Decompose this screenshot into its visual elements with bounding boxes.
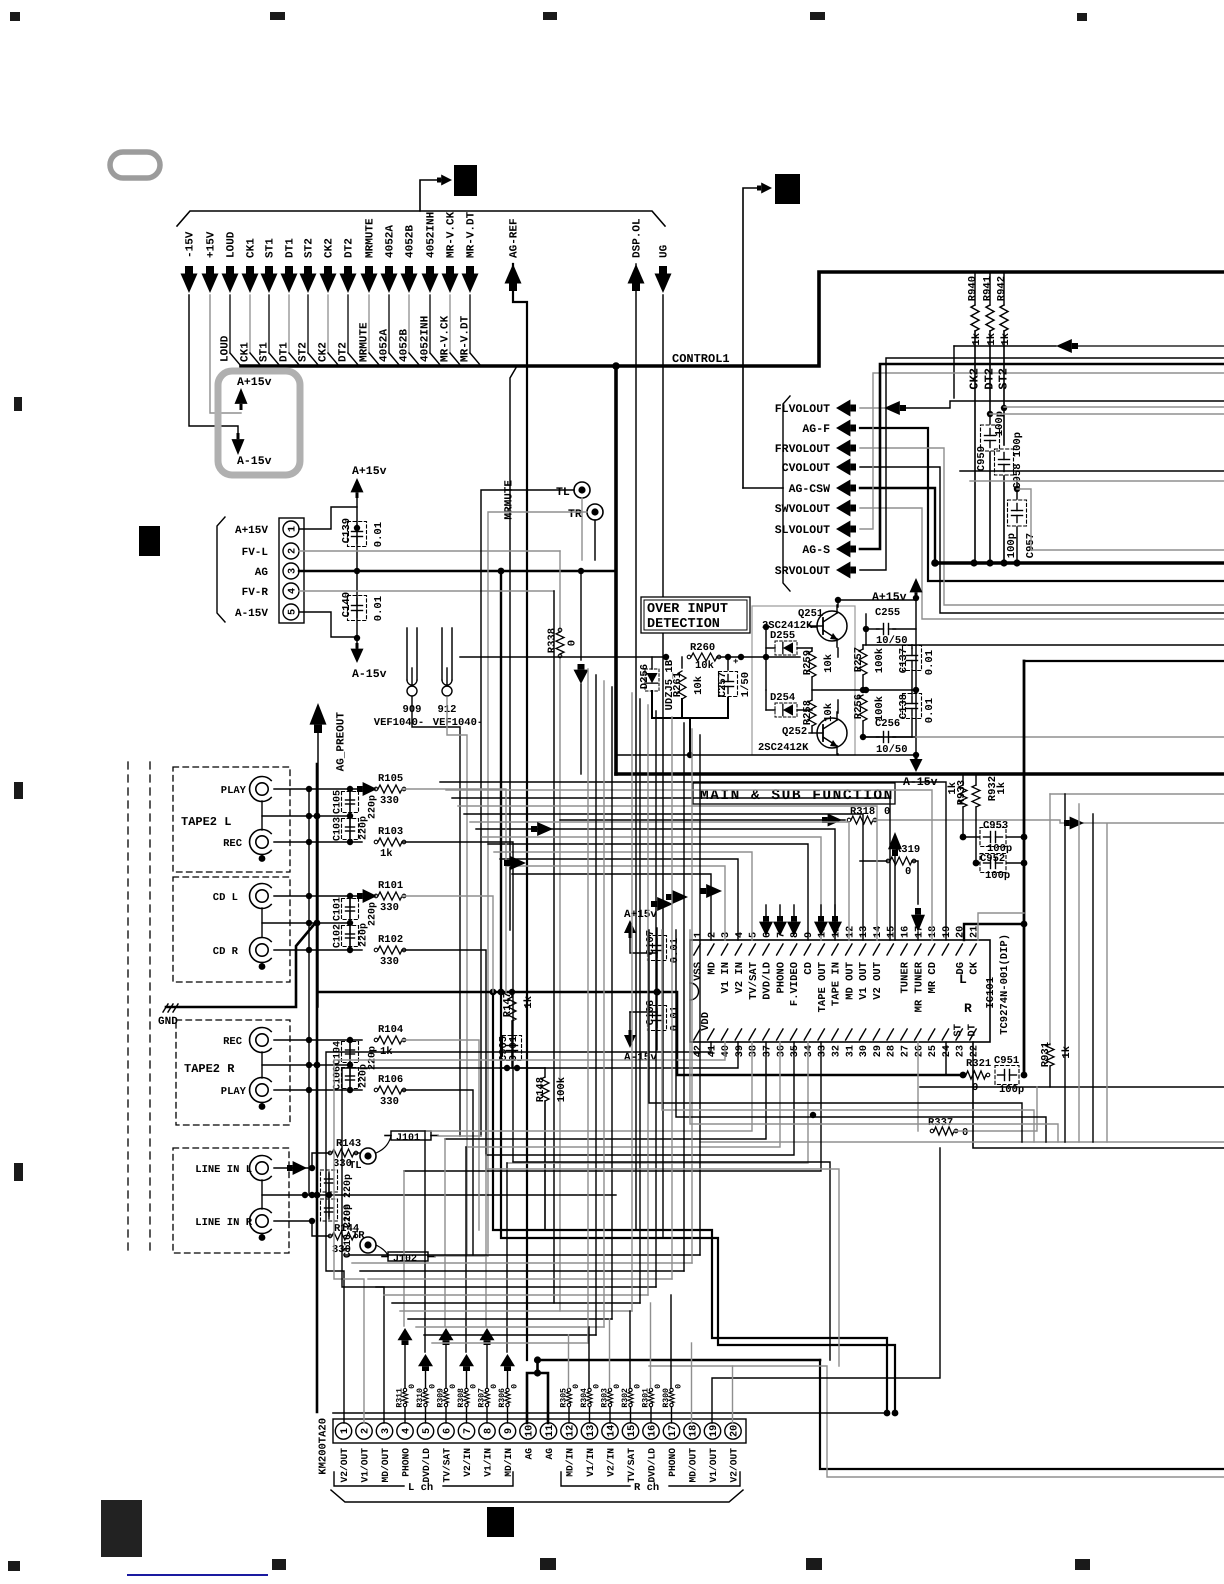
- MRMUTE tap from bus: [510, 366, 517, 930]
- resistor R303 0: [608, 1388, 611, 1391]
- svg-text:17: 17: [668, 1425, 679, 1437]
- IC101 pin 8: [790, 944, 796, 955]
- svg-text:330: 330: [380, 795, 399, 807]
- OVER INPUT DETECTION label box: [641, 597, 750, 633]
- wire to IC pin 19: [440, 782, 946, 940]
- svg-text:37: 37: [762, 1045, 773, 1057]
- svg-text:FV-R: FV-R: [242, 587, 269, 599]
- right arrows on bundle: [537, 822, 553, 836]
- svg-text:330: 330: [380, 956, 399, 968]
- L ch brace: [334, 1472, 404, 1486]
- capacitor C958 100p: [999, 459, 1010, 461]
- svg-text:VSS: VSS: [693, 962, 705, 981]
- jack signal wire: [402, 842, 513, 1162]
- pin22 DT drop: [973, 1042, 1224, 1148]
- svg-text:C952: C952: [980, 853, 1005, 865]
- gray pill logo: [110, 152, 160, 178]
- svg-text:Q252: Q252: [782, 726, 807, 738]
- wire IC pin to column: [445, 1042, 766, 1139]
- pin4 FV-R wire: [299, 590, 554, 592]
- svg-text:V2/IN: V2/IN: [462, 1448, 473, 1477]
- svg-text:0.01: 0.01: [373, 522, 385, 547]
- AG thick line right: [538, 1359, 821, 1362]
- svg-text:100k: 100k: [874, 696, 886, 721]
- svg-text:C140: C140: [341, 592, 353, 617]
- svg-text:1: 1: [693, 932, 704, 938]
- svg-text:1k: 1k: [1061, 1046, 1073, 1059]
- stair wire: [392, 1302, 640, 1304]
- resistor R257 100k: [859, 649, 867, 675]
- svg-text:C102: C102: [332, 924, 343, 948]
- IC101 body: [690, 940, 990, 1042]
- svg-text:3: 3: [381, 1428, 392, 1434]
- svg-text:26: 26: [914, 1045, 925, 1057]
- svg-text:R337: R337: [928, 1117, 953, 1129]
- resistor R102 330: [274, 949, 362, 951]
- svg-text:CK2: CK2: [318, 342, 330, 362]
- svg-text:10k: 10k: [695, 660, 714, 672]
- svg-text:29: 29: [873, 1045, 884, 1057]
- svg-text:23: 23: [956, 1045, 967, 1057]
- svg-text:R309: R309: [436, 1388, 445, 1408]
- connector pin 9 MD/IN: [499, 1423, 515, 1439]
- svg-text:12: 12: [565, 1425, 576, 1437]
- wire MR-V.CK to bus: [449, 295, 451, 353]
- svg-text:CK: CK: [969, 961, 981, 974]
- svg-text:R931: R931: [1040, 1042, 1052, 1067]
- svg-text:7: 7: [463, 1428, 474, 1434]
- LINE IN box: [173, 1148, 289, 1253]
- wire to IC pin 15: [452, 798, 890, 940]
- wire column to connector pin 17: [670, 1295, 672, 1388]
- svg-text:TAPE IN: TAPE IN: [831, 962, 843, 1006]
- connector pin 15 TV/SAT: [622, 1423, 638, 1439]
- SWVOLOUT wire: [860, 508, 1224, 619]
- 5-pin connector body: [279, 518, 304, 623]
- resistor R942 1k: [1003, 272, 1005, 305]
- svg-text:MR-V.CK: MR-V.CK: [446, 211, 458, 258]
- svg-text:0: 0: [567, 640, 579, 646]
- svg-text:0: 0: [510, 1384, 519, 1389]
- svg-text:9: 9: [804, 932, 815, 938]
- AG bus right thick: [935, 561, 1224, 564]
- svg-text:10k: 10k: [693, 676, 705, 695]
- -15V wire: [189, 295, 238, 433]
- svg-text:13: 13: [586, 1425, 597, 1437]
- stair wire: [360, 1270, 684, 1272]
- svg-text:100k: 100k: [874, 648, 886, 673]
- svg-text:R103: R103: [378, 826, 403, 838]
- wire column to connector pin 12: [568, 1335, 570, 1388]
- svg-text:100k: 100k: [556, 1077, 568, 1102]
- capacitor C138 0.01: [907, 703, 918, 705]
- wire IC pin to column: [404, 1042, 821, 1171]
- AG-REF wire down: [513, 264, 527, 1360]
- +15V wire: [210, 295, 241, 413]
- svg-text:6: 6: [442, 1428, 453, 1434]
- IC101 pin 28: [887, 1029, 893, 1040]
- svg-text:CONTROL1: CONTROL1: [672, 352, 730, 366]
- svg-text:15: 15: [887, 926, 898, 938]
- svg-text:4052INH: 4052INH: [426, 212, 438, 258]
- wire 909 to bundle: [412, 697, 460, 1136]
- wire 912 to bundle: [447, 697, 467, 1256]
- wire ST1 to bus: [268, 295, 270, 353]
- connector pin 1 V2/OUT: [335, 1423, 351, 1439]
- FRVOLOUT wire: [860, 448, 1224, 605]
- wire column to connector pin 6: [444, 1139, 446, 1326]
- Q collector rail: [838, 599, 916, 601]
- thick vertical right: [1023, 661, 1026, 1075]
- svg-text:R321: R321: [966, 1058, 991, 1070]
- edge lines right mid: [1004, 406, 1224, 408]
- capacitor C952 100p: [973, 860, 980, 867]
- svg-text:R306: R306: [498, 1388, 507, 1408]
- svg-text:100p: 100p: [985, 870, 1010, 882]
- svg-text:R148: R148: [535, 1077, 547, 1102]
- svg-text:35: 35: [790, 1045, 801, 1057]
- svg-text:220p: 220p: [367, 902, 378, 926]
- wire to IC pin 11: [476, 829, 835, 940]
- svg-text:1k: 1k: [996, 782, 1008, 795]
- svg-text:R307: R307: [477, 1388, 486, 1408]
- IC101 pin 6: [763, 944, 769, 955]
- svg-text:R303: R303: [600, 1388, 609, 1408]
- svg-text:LINE IN R: LINE IN R: [195, 1217, 252, 1229]
- svg-text:MR TUNER: MR TUNER: [913, 961, 925, 1012]
- second AG-ish line: [649, 1366, 1224, 1477]
- connector pin 17 PHONO: [663, 1423, 679, 1439]
- svg-text:4052B: 4052B: [405, 225, 417, 258]
- IC101 pin 10: [818, 944, 824, 955]
- R ch brace: [561, 1472, 630, 1486]
- volout brace: [783, 396, 790, 591]
- svg-text:13: 13: [859, 926, 870, 938]
- pin2 FV-L wire: [299, 550, 560, 552]
- resistor R148 100k: [544, 1068, 546, 1077]
- wire column to connector pin 5: [424, 1131, 426, 1352]
- svg-text:ST2: ST2: [304, 238, 316, 258]
- resistor R256 100k: [859, 695, 867, 721]
- stair wire: [384, 1294, 648, 1296]
- svg-text:5: 5: [749, 932, 760, 938]
- svg-text:R302: R302: [621, 1388, 630, 1408]
- IC101 pin 42: [694, 1029, 700, 1040]
- resistor R310 0: [424, 1388, 427, 1391]
- stair wire: [376, 1286, 656, 1288]
- svg-text:R106: R106: [378, 1074, 403, 1086]
- svg-text:1/50: 1/50: [740, 672, 752, 697]
- OID gray outline: [752, 606, 855, 755]
- pin20 DG link: [964, 924, 1024, 940]
- svg-text:22: 22: [969, 1045, 980, 1057]
- AG thick line mid: [318, 992, 960, 1075]
- svg-text:MD/OUT: MD/OUT: [687, 1448, 698, 1483]
- resistor R106 330: [274, 1089, 362, 1091]
- svg-text:14: 14: [606, 1425, 617, 1437]
- svg-text:V1 OUT: V1 OUT: [858, 962, 870, 1000]
- test pin 909: [406, 628, 408, 680]
- svg-text:16: 16: [900, 926, 911, 938]
- connector pin 19 V1/OUT: [704, 1423, 720, 1439]
- AG-S wire: [860, 364, 1224, 549]
- IC101 pin 34: [804, 1029, 810, 1040]
- svg-text:D256: D256: [639, 664, 651, 689]
- capacitor C108 0.01: [652, 1015, 663, 1017]
- IC101 pin 39: [735, 1029, 741, 1040]
- svg-text:C255: C255: [875, 607, 900, 619]
- wire to IC pin 10: [482, 837, 821, 940]
- svg-text:2SC2412K: 2SC2412K: [762, 620, 813, 632]
- wire mid vertical turning right: [649, 930, 1022, 1142]
- svg-text:18: 18: [928, 926, 939, 938]
- connector pin 3 MD/OUT: [376, 1423, 392, 1439]
- jumper J101: [376, 1136, 391, 1153]
- svg-text:ST: ST: [953, 1024, 965, 1037]
- resistor R308 0: [465, 1388, 468, 1391]
- svg-text:A-15v: A-15v: [237, 455, 272, 468]
- svg-text:SLVOLOUT: SLVOLOUT: [775, 524, 830, 537]
- IC101 pin 7: [777, 944, 783, 955]
- resistor R337 0: [917, 1042, 919, 1131]
- svg-text:DVD/LD: DVD/LD: [421, 1448, 432, 1483]
- svg-text:R941: R941: [982, 276, 994, 301]
- connector pin 20 V2/OUT: [725, 1423, 741, 1439]
- page ref solid box left: [139, 526, 160, 556]
- wire ST2 to bus: [307, 295, 309, 353]
- A-15v arrow in gray box: [232, 439, 245, 455]
- svg-text:DT2: DT2: [338, 342, 350, 362]
- svg-text:1k: 1k: [380, 848, 393, 860]
- connector pin 2 V1/OUT: [356, 1423, 372, 1439]
- resistor R105 330: [274, 788, 362, 790]
- svg-text:R261: R261: [672, 672, 684, 697]
- svg-text:16: 16: [647, 1425, 658, 1437]
- OID ground bottom line: [652, 717, 728, 719]
- svg-text:PHONO: PHONO: [775, 962, 787, 994]
- svg-text:C137: C137: [898, 648, 910, 673]
- svg-text:A+15v: A+15v: [237, 376, 272, 389]
- svg-text:14: 14: [873, 926, 884, 938]
- svg-text:MR-V.DT: MR-V.DT: [466, 211, 478, 258]
- svg-text:38: 38: [749, 1045, 760, 1057]
- LINE IN mid row: [262, 1194, 616, 1196]
- jack signal wire: [402, 1090, 473, 1255]
- svg-text:30: 30: [859, 1045, 870, 1057]
- svg-text:VDD: VDD: [700, 1012, 712, 1031]
- page ref solid rect bottom-left: [101, 1500, 142, 1557]
- svg-text:C139: C139: [341, 518, 353, 543]
- svg-text:A-15V: A-15V: [235, 608, 268, 620]
- svg-text:330: 330: [380, 1096, 399, 1108]
- svg-text:MRMUTE: MRMUTE: [504, 480, 516, 520]
- long line right 1087: [920, 1086, 1224, 1088]
- svg-text:V1/OUT: V1/OUT: [359, 1448, 370, 1483]
- A-15v arrow C108: [630, 1011, 657, 1013]
- svg-text:DVD/LD: DVD/LD: [762, 962, 774, 1000]
- svg-text:C958 100p: C958 100p: [1012, 432, 1024, 489]
- svg-text:2: 2: [707, 932, 718, 938]
- jack signal wire: [402, 896, 493, 992]
- wire IC pin to column: [486, 1042, 794, 1155]
- pin5 wire: [299, 612, 357, 637]
- top connector bracket: [177, 211, 665, 226]
- wire MR-V.DT to bus: [469, 295, 471, 353]
- wire 4052INH to bus: [429, 295, 431, 353]
- wire DT1 to bus: [288, 295, 290, 353]
- svg-text:36: 36: [776, 1045, 787, 1057]
- AG pins bridge: [527, 1373, 548, 1423]
- svg-text:10k: 10k: [823, 654, 835, 673]
- wire column to connector pin 15: [629, 1311, 631, 1388]
- svg-text:1: 1: [340, 1428, 351, 1434]
- IC101 pin 36: [777, 1029, 783, 1040]
- svg-text:+: +: [733, 657, 738, 667]
- svg-text:CK1: CK1: [246, 238, 258, 258]
- capacitor C953 100p: [960, 834, 967, 841]
- svg-text:19: 19: [709, 1425, 720, 1437]
- wire column to connector pin 16: [650, 1303, 652, 1388]
- A-15v rail arrow: [351, 649, 364, 663]
- connector pin 7 V2/IN: [458, 1423, 474, 1439]
- svg-text:R: R: [964, 1001, 972, 1016]
- wire MRMUTE to bus: [368, 295, 370, 353]
- connector pin 4 PHONO: [397, 1423, 413, 1439]
- connector pin 16 DVD/LD: [643, 1423, 659, 1439]
- resistor R941 1k: [989, 272, 991, 305]
- svg-text:1k: 1k: [986, 333, 998, 346]
- connector CN brace: [217, 517, 225, 622]
- IC101 pin 26: [915, 1029, 921, 1040]
- svg-text:1k: 1k: [1000, 333, 1012, 346]
- blue underline: [127, 1574, 268, 1576]
- svg-text:R102: R102: [378, 934, 403, 946]
- svg-text:TUNER: TUNER: [900, 961, 912, 993]
- svg-text:C257: C257: [717, 672, 729, 697]
- IC101 pin 40: [721, 1029, 727, 1040]
- wire DT2 to bus: [347, 295, 349, 353]
- SRVOLOUT wire: [860, 358, 1224, 570]
- svg-text:R311: R311: [395, 1388, 404, 1408]
- MAIN & SUB FUNCTION box: [616, 772, 1224, 776]
- svg-text:15: 15: [627, 1425, 638, 1437]
- wire mid vertical turning right: [662, 930, 1034, 1142]
- svg-text:DT1: DT1: [285, 238, 297, 258]
- capacitor C107 0.01: [652, 945, 663, 947]
- wire to IC pin 3: [506, 866, 725, 940]
- svg-text:27: 27: [900, 1045, 911, 1057]
- test pin 912: [441, 628, 443, 680]
- capacitor C137 0.01: [907, 655, 918, 657]
- wire vertical right area: [1078, 804, 1080, 1142]
- svg-text:L: L: [959, 972, 967, 987]
- svg-text:V2 IN: V2 IN: [734, 962, 746, 994]
- svg-text:3: 3: [721, 932, 732, 938]
- svg-text:40: 40: [721, 1045, 732, 1057]
- off-page ref box top-left: [454, 165, 477, 196]
- IC101 pin 20: [956, 944, 962, 955]
- cap C109 C110: [328, 1174, 330, 1216]
- svg-text:+15V: +15V: [206, 231, 218, 258]
- svg-text:A+15V: A+15V: [235, 525, 268, 537]
- IC101 pin 19: [942, 944, 948, 955]
- svg-text:TV/SAT: TV/SAT: [441, 1448, 452, 1483]
- CONTROL1 bus: [241, 272, 1224, 366]
- up arrow near pin16: [888, 832, 902, 849]
- IC pins 41-39 to connector pins 1-3: [326, 1042, 711, 1423]
- stair wire: [368, 1278, 672, 1280]
- svg-text:R256: R256: [853, 694, 865, 719]
- svg-text:4: 4: [735, 932, 746, 938]
- svg-text:4052B: 4052B: [399, 329, 411, 362]
- OID input line: [460, 656, 666, 658]
- svg-text:5: 5: [287, 609, 298, 615]
- wire column to connector pin 8: [485, 1155, 487, 1326]
- wire vertical right area: [1106, 824, 1108, 1142]
- svg-text:MD/IN: MD/IN: [564, 1448, 575, 1477]
- svg-text:220p: 220p: [367, 795, 378, 819]
- svg-text:0.01: 0.01: [669, 938, 681, 963]
- svg-text:R308: R308: [457, 1388, 466, 1408]
- svg-text:7: 7: [776, 932, 787, 938]
- svg-text:24: 24: [942, 1045, 953, 1057]
- svg-text:A+15v: A+15v: [872, 591, 907, 604]
- svg-text:AG_PREOUT: AG_PREOUT: [336, 712, 348, 772]
- wire 4052A to bus: [388, 295, 390, 353]
- arrow on R318 line: [828, 814, 842, 827]
- svg-text:0.01: 0.01: [924, 698, 936, 723]
- svg-text:R104: R104: [378, 1024, 403, 1036]
- svg-text:MD/OUT: MD/OUT: [380, 1448, 391, 1483]
- UG wire: [662, 295, 664, 774]
- svg-text:GND: GND: [158, 1016, 178, 1028]
- connector pin 11 AG: [540, 1423, 556, 1439]
- resistor R300 0: [670, 1388, 673, 1391]
- svg-text:10/50: 10/50: [876, 744, 908, 756]
- AG-F wire: [860, 428, 1224, 581]
- resistor R103 1k: [274, 841, 362, 843]
- svg-text:V1 IN: V1 IN: [720, 962, 732, 994]
- svg-text:PHONO: PHONO: [400, 1448, 411, 1477]
- IC101 pin 21: [970, 944, 976, 955]
- svg-text:8: 8: [790, 932, 801, 938]
- svg-text:5: 5: [422, 1428, 433, 1434]
- svg-text:CD L: CD L: [213, 892, 238, 904]
- svg-text:AG: AG: [255, 567, 269, 579]
- svg-text:MRMUTE: MRMUTE: [365, 218, 377, 258]
- svg-text:4052A: 4052A: [379, 329, 391, 362]
- svg-text:R ch: R ch: [634, 1482, 659, 1494]
- svg-text:28: 28: [887, 1045, 898, 1057]
- capacitor C957 100p: [1016, 481, 1018, 499]
- svg-text:TL: TL: [349, 1160, 362, 1172]
- pins 18-20 wires: [691, 1343, 693, 1423]
- svg-text:MRMUTE: MRMUTE: [359, 322, 371, 362]
- connector pin 6 TV/SAT: [438, 1423, 454, 1439]
- svg-text:FRVOLOUT: FRVOLOUT: [775, 443, 830, 456]
- svg-text:4: 4: [287, 588, 298, 594]
- svg-text:C101: C101: [332, 897, 343, 921]
- svg-text:FV-L: FV-L: [242, 547, 269, 559]
- arrow onto pin17: [911, 915, 925, 932]
- stair wire: [352, 1262, 692, 1264]
- svg-text:V2/OUT: V2/OUT: [339, 1448, 350, 1483]
- IC101 pin 14: [873, 944, 879, 955]
- IC101 pin 37: [763, 1029, 769, 1040]
- svg-text:MR-V.CK: MR-V.CK: [440, 315, 452, 362]
- svg-text:C138: C138: [898, 694, 910, 719]
- svg-text:R105: R105: [378, 773, 403, 785]
